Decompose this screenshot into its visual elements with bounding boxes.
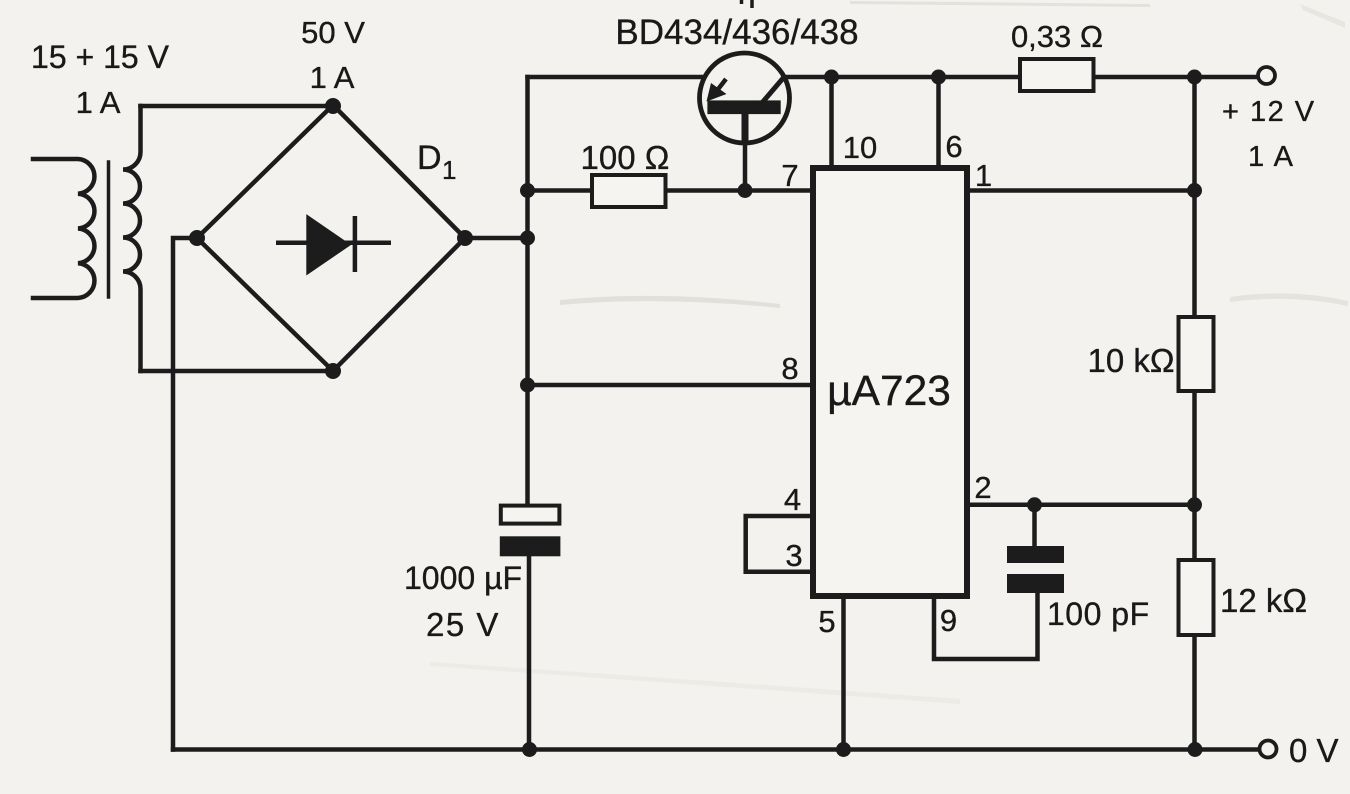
node: bus / pin8 xyxy=(520,378,535,393)
wire: pin 6 to rail xyxy=(936,77,941,165)
secondary winding xyxy=(123,106,141,371)
node: rail / pin10 xyxy=(824,70,839,85)
svg-text:1 A: 1 A xyxy=(310,60,355,95)
node: base / 100ohm xyxy=(738,183,753,198)
svg-text:100 Ω: 100 Ω xyxy=(581,139,670,176)
wire: right vertical rail to 10k xyxy=(1192,77,1197,317)
bridge rectifier D1 xyxy=(197,105,465,371)
svg-text:8: 8 xyxy=(781,351,798,386)
wire: pin 2 line xyxy=(970,503,1195,508)
svg-text:10 kΩ: 10 kΩ xyxy=(1087,342,1174,379)
svg-text:+ 12 V: + 12 V xyxy=(1222,96,1316,128)
svg-text:1 A: 1 A xyxy=(1248,141,1294,173)
base bar xyxy=(707,100,780,114)
wire: 1000uF bottom lead xyxy=(527,556,532,750)
label T1 remnant xyxy=(742,0,753,8)
node: bridge right vertex xyxy=(457,230,473,246)
wire: 12k bottom to 0V rail xyxy=(1192,635,1197,750)
capacitor C1 1000uF 25V xyxy=(500,506,561,557)
svg-text:1 A: 1 A xyxy=(76,85,121,120)
node: 0V / pin5 xyxy=(836,742,851,757)
svg-text:1: 1 xyxy=(442,155,456,185)
wire: pin 4 - pin 3 strap xyxy=(746,516,810,572)
svg-text:1000 µF: 1000 µF xyxy=(404,560,522,596)
wire: transistor base lead xyxy=(743,140,748,191)
node: 0V / 1000uF xyxy=(522,742,537,757)
resistor R2 0.33 ohm xyxy=(1020,59,1094,91)
resistor R4 12k xyxy=(1179,560,1214,635)
wire: pin 10 to rail xyxy=(829,77,834,165)
resistor R1 100 ohm xyxy=(592,175,666,207)
svg-text:9: 9 xyxy=(940,603,957,638)
wire: left vertical bus (bridge output) xyxy=(525,77,530,505)
wire: pin 1 to right vertical xyxy=(970,188,1195,193)
wire: top rail +V from left vertical to +12V terminal xyxy=(528,75,1258,80)
svg-text:3: 3 xyxy=(785,538,802,573)
node: rail / right vertical xyxy=(1187,70,1202,85)
transistor Q1 BD434 xyxy=(700,53,790,143)
core xyxy=(107,162,111,297)
wire: pin 8 line xyxy=(528,383,811,388)
svg-text:5: 5 xyxy=(818,604,835,639)
wire: 100pF bottom lead / pin 9 loop xyxy=(934,592,1038,659)
node: pin1 / right vertical xyxy=(1187,183,1202,198)
svg-text:1: 1 xyxy=(975,158,992,193)
resistor R3 10k xyxy=(1179,317,1214,391)
wire: 100pF top lead xyxy=(1032,505,1037,547)
primary winding xyxy=(33,159,94,298)
node: bridge top vertex xyxy=(325,98,341,114)
wire: bridge + output to bus xyxy=(465,236,528,241)
node: 0V / 12k xyxy=(1188,742,1203,757)
svg-text:BD434/436/438: BD434/436/438 xyxy=(615,13,858,52)
node: bridge left vertex xyxy=(189,230,205,246)
wire: 10k bottom to pin2 node xyxy=(1192,391,1197,560)
node: bus / bridge xyxy=(520,231,535,246)
wire: bridge minus to 0V rail xyxy=(173,238,197,750)
node: pin2 / 100pF xyxy=(1027,497,1042,512)
terminal +12V xyxy=(1258,67,1275,84)
wire: bottom 0V rail xyxy=(173,747,1259,752)
IC U1 uA723 xyxy=(813,168,967,596)
capacitor C2 100pF xyxy=(1007,546,1064,563)
svg-text:0,33 Ω: 0,33 Ω xyxy=(1011,19,1103,54)
terminal 0V xyxy=(1260,741,1277,758)
svg-text:15 + 15 V: 15 + 15 V xyxy=(31,39,170,75)
svg-text:µA723: µA723 xyxy=(827,368,951,415)
collector stroke xyxy=(761,77,785,105)
svg-text:50 V: 50 V xyxy=(301,15,365,50)
wire: secondary bottom to bridge xyxy=(141,369,334,374)
svg-text:0 V: 0 V xyxy=(1289,732,1339,769)
base stem xyxy=(742,113,749,141)
wire: pin 5 to 0V rail xyxy=(841,599,846,750)
node: bus / 100ohm xyxy=(520,183,535,198)
svg-text:D: D xyxy=(417,139,442,177)
svg-text:25 V: 25 V xyxy=(426,606,500,643)
diode symbol inside D1 xyxy=(276,216,391,273)
node: pin2 / right vertical xyxy=(1187,497,1202,512)
wire: 100ohm line to pin 7 xyxy=(528,188,811,193)
svg-text:7: 7 xyxy=(781,158,798,193)
svg-text:6: 6 xyxy=(945,129,962,164)
svg-text:100 pF: 100 pF xyxy=(1047,596,1150,632)
wire: secondary top to bridge xyxy=(141,104,334,109)
transformer T1 xyxy=(33,106,333,371)
svg-text:10: 10 xyxy=(843,130,877,165)
svg-text:12 kΩ: 12 kΩ xyxy=(1220,582,1307,619)
svg-text:2: 2 xyxy=(974,470,991,505)
svg-text:4: 4 xyxy=(784,482,801,517)
emitter stroke with arrow xyxy=(712,79,726,97)
node: rail / pin6 xyxy=(931,70,946,85)
node: bridge bottom vertex xyxy=(325,363,341,379)
